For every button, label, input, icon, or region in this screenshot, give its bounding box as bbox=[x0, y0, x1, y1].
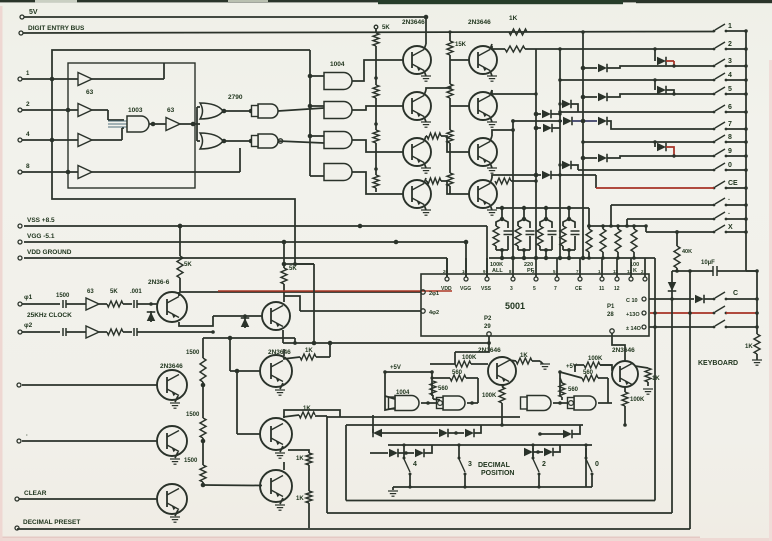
svg-text:63: 63 bbox=[87, 289, 94, 295]
svg-text:2: 2 bbox=[26, 101, 30, 108]
svg-text:0: 0 bbox=[595, 461, 599, 468]
svg-text:1500: 1500 bbox=[186, 350, 200, 356]
svg-text:63: 63 bbox=[86, 89, 94, 96]
svg-text:9: 9 bbox=[728, 148, 732, 155]
svg-text:5: 5 bbox=[533, 286, 536, 292]
svg-text:1K: 1K bbox=[303, 406, 311, 412]
svg-text:φ1: φ1 bbox=[24, 294, 33, 301]
svg-text:VSS: VSS bbox=[481, 286, 492, 292]
svg-text:7: 7 bbox=[728, 121, 732, 128]
svg-text:K: K bbox=[633, 268, 637, 274]
svg-text:5K: 5K bbox=[184, 262, 192, 268]
svg-text:7: 7 bbox=[554, 286, 557, 292]
svg-text:± 14O: ± 14O bbox=[626, 326, 642, 332]
svg-text:VDD GROUND: VDD GROUND bbox=[27, 249, 72, 256]
svg-text:5V: 5V bbox=[29, 9, 38, 16]
svg-text:28: 28 bbox=[607, 312, 614, 318]
svg-text:2N36-6: 2N36-6 bbox=[148, 279, 170, 286]
svg-text:0: 0 bbox=[728, 162, 732, 169]
svg-text:1K: 1K bbox=[296, 456, 304, 462]
svg-text:5K: 5K bbox=[289, 266, 297, 272]
svg-text:ALL: ALL bbox=[492, 268, 503, 274]
svg-text:2: 2 bbox=[542, 461, 546, 468]
svg-text:29: 29 bbox=[484, 324, 491, 330]
svg-text:1004: 1004 bbox=[396, 390, 410, 396]
svg-text:2N3646: 2N3646 bbox=[468, 19, 491, 26]
svg-text:11: 11 bbox=[599, 286, 605, 292]
svg-text:1004: 1004 bbox=[330, 61, 345, 68]
svg-text:12: 12 bbox=[614, 286, 620, 292]
svg-text:3: 3 bbox=[510, 286, 513, 292]
svg-text:5K: 5K bbox=[110, 289, 118, 295]
svg-text:5K: 5K bbox=[382, 25, 390, 31]
svg-text:.001: .001 bbox=[130, 289, 142, 295]
svg-text:·: · bbox=[728, 211, 730, 218]
svg-text:X: X bbox=[728, 224, 733, 231]
svg-text:DIGIT ENTRY BUS: DIGIT ENTRY BUS bbox=[28, 25, 85, 32]
svg-text:4: 4 bbox=[728, 72, 732, 79]
svg-text:·: · bbox=[26, 433, 28, 439]
svg-text:2N3646: 2N3646 bbox=[402, 19, 425, 26]
svg-text:25KHz CLOCK: 25KHz CLOCK bbox=[27, 312, 72, 319]
svg-text:15K: 15K bbox=[455, 42, 467, 48]
svg-text:1K: 1K bbox=[652, 376, 660, 382]
svg-text:·: · bbox=[728, 197, 730, 204]
svg-text:1003: 1003 bbox=[128, 107, 143, 114]
svg-text:CLEAR: CLEAR bbox=[24, 490, 47, 497]
svg-text:2N3646: 2N3646 bbox=[160, 363, 183, 370]
svg-text:1K: 1K bbox=[745, 344, 753, 350]
svg-text:2: 2 bbox=[728, 41, 732, 48]
svg-text:40K: 40K bbox=[682, 249, 692, 255]
svg-text:C 10: C 10 bbox=[626, 298, 638, 304]
svg-text:1500: 1500 bbox=[186, 412, 200, 418]
svg-text:1: 1 bbox=[728, 23, 732, 30]
svg-text:560: 560 bbox=[438, 386, 449, 392]
svg-text:C: C bbox=[733, 290, 738, 297]
svg-text:560: 560 bbox=[568, 387, 579, 393]
svg-text:5: 5 bbox=[728, 86, 732, 93]
svg-text:6: 6 bbox=[728, 104, 732, 111]
svg-text:1K: 1K bbox=[520, 353, 528, 359]
svg-text:1K: 1K bbox=[509, 15, 518, 22]
svg-text:P2: P2 bbox=[484, 316, 492, 322]
svg-text:100K: 100K bbox=[630, 397, 645, 403]
svg-text:1K: 1K bbox=[296, 496, 304, 502]
svg-text:DECIMAL PRESET: DECIMAL PRESET bbox=[23, 519, 80, 526]
svg-text:+13O: +13O bbox=[626, 312, 640, 318]
svg-text:1500: 1500 bbox=[56, 293, 70, 299]
svg-text:4φ2: 4φ2 bbox=[429, 310, 439, 316]
svg-text:3: 3 bbox=[728, 58, 732, 65]
svg-text:φ2: φ2 bbox=[24, 322, 33, 329]
svg-text:100K: 100K bbox=[482, 393, 497, 399]
svg-text:CE: CE bbox=[728, 180, 738, 187]
svg-text:4: 4 bbox=[413, 461, 417, 468]
svg-text:10µF: 10µF bbox=[701, 260, 715, 266]
svg-text:PF: PF bbox=[527, 268, 535, 274]
svg-text:4: 4 bbox=[26, 131, 30, 138]
svg-text:8: 8 bbox=[728, 134, 732, 141]
svg-text:63: 63 bbox=[167, 107, 175, 114]
svg-text:5001: 5001 bbox=[505, 301, 525, 311]
svg-text:VGG -5.1: VGG -5.1 bbox=[27, 233, 55, 240]
svg-text:1500: 1500 bbox=[184, 458, 198, 464]
svg-text:2N3646: 2N3646 bbox=[612, 347, 635, 354]
svg-text:DECIMAL: DECIMAL bbox=[478, 462, 511, 469]
svg-text:POSITION: POSITION bbox=[481, 470, 514, 477]
svg-text:VDD: VDD bbox=[441, 286, 452, 292]
svg-text:VSS +8.5: VSS +8.5 bbox=[27, 217, 55, 224]
svg-text:2φ1: 2φ1 bbox=[429, 291, 439, 297]
svg-text:8: 8 bbox=[26, 163, 30, 170]
svg-text:3: 3 bbox=[468, 461, 472, 468]
svg-text:100K: 100K bbox=[588, 356, 603, 362]
svg-text:P1: P1 bbox=[607, 304, 615, 310]
svg-text:KEYBOARD: KEYBOARD bbox=[698, 360, 738, 367]
svg-text:+5V: +5V bbox=[390, 365, 401, 371]
svg-text:2790: 2790 bbox=[228, 94, 243, 101]
svg-text:CE: CE bbox=[575, 286, 583, 292]
svg-text:VGG: VGG bbox=[460, 286, 471, 292]
